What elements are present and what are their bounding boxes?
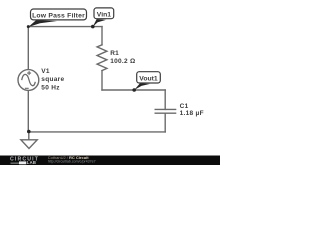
node Vin1 dot — [91, 25, 95, 29]
resistor R1 — [97, 45, 107, 71]
svg-text:R1: R1 — [110, 50, 119, 57]
flag Vin1 — [94, 8, 114, 19]
node Vout1 dot — [132, 88, 136, 92]
svg-text:Vin1: Vin1 — [97, 12, 111, 19]
wire top — [28, 26, 102, 28]
wire left lower — [27, 90, 29, 132]
capacitor C1 — [155, 109, 175, 113]
wire cap upper — [164, 90, 166, 109]
flag Vin1 tail — [93, 19, 106, 27]
voltage source V1 — [18, 70, 39, 91]
svg-text:square: square — [41, 76, 64, 83]
wire right upper — [101, 27, 103, 45]
footer logo LAB wire — [11, 162, 20, 164]
svg-text:50 Hz: 50 Hz — [41, 84, 60, 91]
node ground junction dot — [27, 130, 31, 134]
svg-text:1.18 µF: 1.18 µF — [180, 110, 204, 117]
svg-text:100.2 Ω: 100.2 Ω — [110, 58, 135, 65]
wire cap lower — [164, 113, 166, 132]
svg-text:V1: V1 — [41, 68, 50, 75]
node dot top-left — [27, 25, 30, 28]
footer bar — [0, 156, 220, 166]
wire left upper — [27, 27, 29, 70]
flag Vout1 — [137, 72, 161, 83]
svg-text:http://circuitlab.com/c/pr437e: http://circuitlab.com/c/pr437e7 — [48, 160, 96, 164]
flag Low Pass Filter tail — [28, 20, 57, 27]
wire right lower — [101, 71, 103, 90]
svg-text:Vout1: Vout1 — [139, 76, 158, 83]
svg-text:Low Pass Filter: Low Pass Filter — [32, 13, 85, 20]
footer logo LAB box — [19, 161, 26, 164]
flag Vout1 tail — [134, 83, 150, 90]
wire ground stub — [28, 132, 30, 140]
flag Low Pass Filter — [31, 9, 87, 20]
ground — [21, 140, 37, 149]
svg-text:LAB: LAB — [27, 160, 36, 165]
wire bottom — [28, 131, 165, 133]
wire middle — [102, 89, 165, 91]
